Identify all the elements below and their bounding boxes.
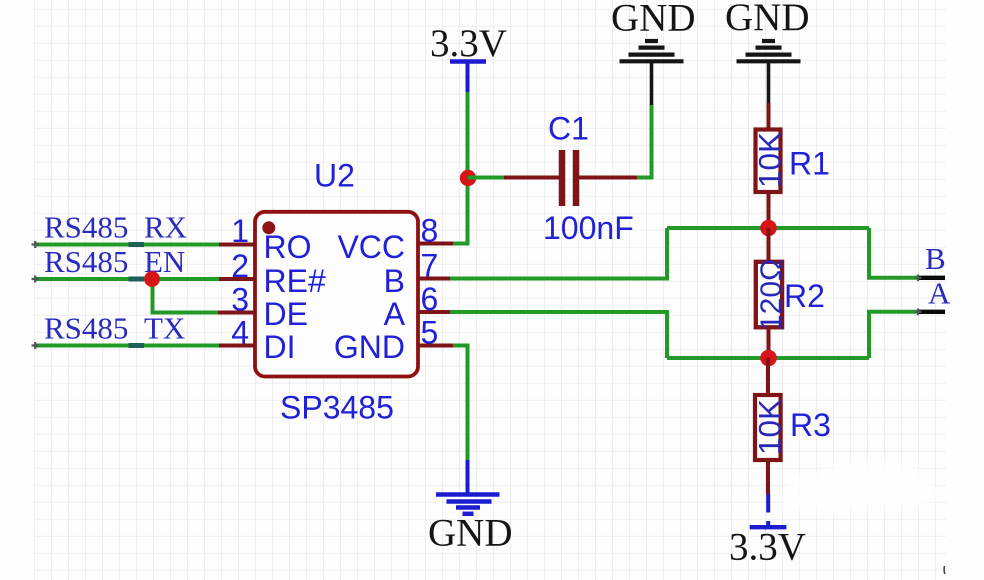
IC U2 xyxy=(218,158,453,426)
svg-text:7: 7 xyxy=(421,248,439,284)
corner mark xyxy=(943,566,946,574)
svg-text:1: 1 xyxy=(231,213,249,249)
wire junction EN to pin 3 xyxy=(153,279,219,313)
svg-text:100nF: 100nF xyxy=(543,210,634,246)
junction R2-R3 xyxy=(760,350,777,367)
wire top rail xyxy=(667,226,869,230)
ground GND top 1 xyxy=(611,0,696,105)
port B xyxy=(915,241,946,281)
svg-text:RS485: RS485 xyxy=(44,244,128,279)
svg-text:A: A xyxy=(928,276,951,311)
pin 1 marker dot xyxy=(262,221,275,234)
resistor R2 xyxy=(755,228,825,358)
svg-text:VCC: VCC xyxy=(337,229,405,265)
watermark xyxy=(780,463,943,511)
wire C1 to GND1 xyxy=(637,104,652,178)
svg-text:TX: TX xyxy=(144,311,185,346)
junction VCC node xyxy=(460,170,476,186)
svg-text:DE: DE xyxy=(264,296,308,332)
svg-text:GND: GND xyxy=(611,0,696,40)
wire pin5 to GND bottom xyxy=(453,346,468,463)
svg-text:3.3V: 3.3V xyxy=(729,526,806,569)
wire GND2 to R1 xyxy=(767,103,771,128)
svg-text:B: B xyxy=(384,263,405,299)
svg-text:6: 6 xyxy=(421,281,439,317)
svg-text:10K: 10K xyxy=(752,132,788,188)
pin 5 stub xyxy=(418,344,453,348)
junction R1-R2 xyxy=(760,220,777,237)
svg-text:3.3V: 3.3V xyxy=(430,22,507,65)
wire rail to pin6 xyxy=(450,312,667,358)
svg-text:RE#: RE# xyxy=(264,263,326,299)
resistor R1 xyxy=(752,130,830,193)
ground GND bottom xyxy=(428,460,513,555)
svg-text:5: 5 xyxy=(421,315,439,351)
svg-text:RX: RX xyxy=(144,210,187,245)
wire RS485_TX to pin 4 xyxy=(32,342,221,349)
pin 6 stub xyxy=(418,310,450,314)
svg-text:10K: 10K xyxy=(752,399,788,455)
svg-text:GND: GND xyxy=(334,329,405,365)
svg-text:U2: U2 xyxy=(314,158,355,194)
svg-text:GND: GND xyxy=(428,512,513,555)
pin 3 stub xyxy=(218,311,255,315)
wire junction to C1 xyxy=(468,176,506,180)
pin 4 stub xyxy=(219,344,255,348)
wire rail to port B xyxy=(869,228,918,278)
pin 1 stub xyxy=(219,243,255,247)
svg-text:3: 3 xyxy=(231,282,249,318)
resistor R3 xyxy=(752,358,831,494)
pin 7 stub xyxy=(418,277,450,281)
svg-text:R2: R2 xyxy=(784,278,825,314)
wire 3.3V to VCC xyxy=(453,92,468,244)
svg-text:R1: R1 xyxy=(789,146,830,182)
power symbol 3.3V top xyxy=(430,22,507,92)
svg-text:C1: C1 xyxy=(548,111,589,147)
wire bottom rail xyxy=(667,356,869,360)
svg-text:RS485: RS485 xyxy=(44,210,128,245)
svg-text:R3: R3 xyxy=(790,407,831,443)
wire R1 to junction xyxy=(767,193,771,228)
wire RS485_EN to pin 2 xyxy=(32,276,221,283)
svg-text:GND: GND xyxy=(725,0,810,39)
power symbol 3.3V bottom xyxy=(729,494,806,569)
ground GND top 2 xyxy=(725,0,810,103)
capacitor C1 xyxy=(504,150,637,206)
svg-text:8: 8 xyxy=(421,213,439,249)
junction on RS485_EN xyxy=(144,271,160,287)
wire rail to port A xyxy=(869,312,918,358)
svg-text:B: B xyxy=(925,241,946,276)
port A xyxy=(915,276,952,316)
pin 2 stub xyxy=(219,277,255,281)
svg-text:2: 2 xyxy=(231,248,249,284)
svg-text:A: A xyxy=(384,296,406,332)
svg-text:RS485: RS485 xyxy=(44,311,128,346)
pin 8 stub xyxy=(418,242,453,246)
svg-text:SP3485: SP3485 xyxy=(280,390,394,426)
svg-text:DI: DI xyxy=(264,329,296,365)
wire RS485_RX to pin 1 xyxy=(32,241,221,248)
wire rail to pin7 xyxy=(450,228,667,279)
svg-text:RO: RO xyxy=(264,229,312,265)
svg-text:4: 4 xyxy=(231,315,249,351)
